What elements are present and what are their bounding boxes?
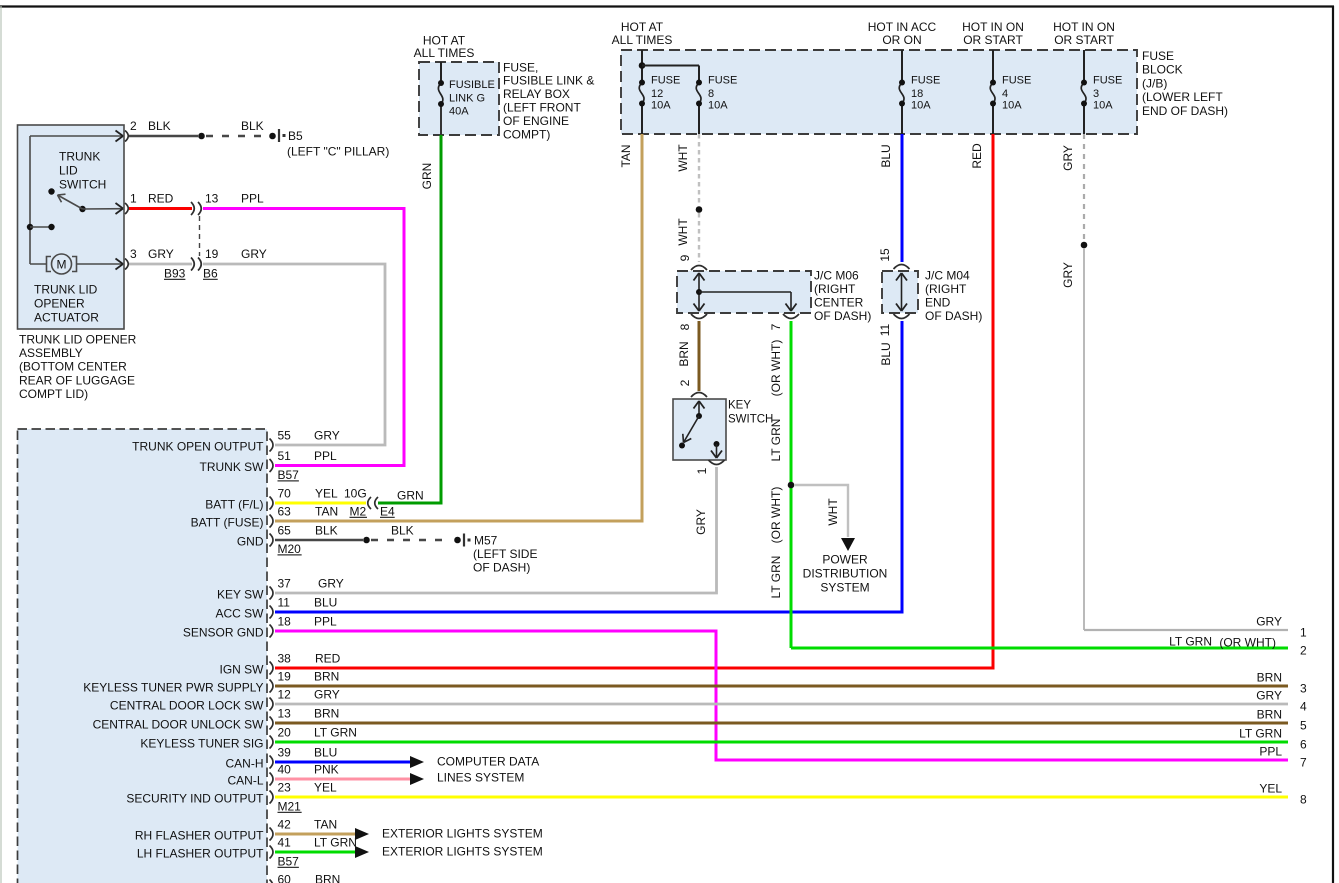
svg-text:GRY: GRY	[148, 247, 174, 261]
svg-text:BRN: BRN	[677, 341, 691, 366]
svg-text:7: 7	[769, 323, 783, 330]
svg-text:J/C M04: J/C M04	[925, 268, 970, 282]
svg-text:COMPT LID): COMPT LID)	[19, 387, 88, 401]
svg-text:3: 3	[1300, 681, 1307, 695]
svg-text:TRUNK LID: TRUNK LID	[34, 282, 98, 296]
svg-text:FUSE: FUSE	[1002, 74, 1031, 86]
svg-text:LT GRN: LT GRN	[314, 835, 357, 849]
svg-text:CAN-H: CAN-H	[226, 756, 264, 770]
svg-text:42: 42	[278, 817, 292, 831]
svg-text:(BOTTOM CENTER: (BOTTOM CENTER	[19, 360, 127, 374]
svg-text:70: 70	[278, 486, 292, 500]
svg-text:COMPT): COMPT)	[503, 127, 550, 141]
svg-text:WHT: WHT	[676, 218, 690, 246]
svg-text:BRN: BRN	[1257, 670, 1282, 684]
svg-text:LT GRN: LT GRN	[1169, 634, 1212, 648]
svg-text:M20: M20	[278, 542, 302, 556]
svg-text:OR START: OR START	[1054, 33, 1114, 47]
svg-text:LINK G: LINK G	[449, 92, 485, 104]
svg-text:FUSE: FUSE	[708, 74, 737, 86]
svg-text:PPL: PPL	[241, 191, 264, 205]
svg-text:5: 5	[1300, 718, 1307, 732]
svg-text:HOT IN ON: HOT IN ON	[962, 20, 1024, 34]
svg-text:4: 4	[1300, 699, 1307, 713]
svg-text:DISTRIBUTION: DISTRIBUTION	[803, 566, 888, 580]
svg-text:10A: 10A	[708, 99, 728, 111]
svg-text:GRY: GRY	[1256, 688, 1282, 702]
svg-text:ALL TIMES: ALL TIMES	[612, 33, 673, 47]
svg-text:ACC SW: ACC SW	[216, 606, 265, 620]
svg-text:(OR WHT): (OR WHT)	[769, 340, 783, 397]
svg-text:LH FLASHER OUTPUT: LH FLASHER OUTPUT	[137, 846, 264, 860]
svg-text:(RIGHT: (RIGHT	[814, 282, 856, 296]
svg-text:REAR OF LUGGAGE: REAR OF LUGGAGE	[19, 373, 135, 387]
svg-text:GRY: GRY	[1061, 262, 1075, 288]
svg-text:KEY SW: KEY SW	[217, 587, 264, 601]
svg-text:1: 1	[130, 191, 137, 205]
svg-text:10A: 10A	[1002, 99, 1022, 111]
svg-text:LINES SYSTEM: LINES SYSTEM	[437, 770, 524, 784]
svg-text:BRN: BRN	[315, 872, 340, 883]
svg-text:2: 2	[678, 379, 692, 386]
svg-text:BLK: BLK	[391, 523, 414, 537]
svg-text:SWITCH: SWITCH	[59, 177, 106, 191]
svg-text:12: 12	[278, 687, 292, 701]
svg-text:10A: 10A	[651, 99, 671, 111]
svg-text:4: 4	[1002, 88, 1008, 100]
svg-text:M21: M21	[278, 799, 302, 813]
svg-text:FUSE: FUSE	[1093, 74, 1122, 86]
svg-text:CENTRAL DOOR LOCK SW: CENTRAL DOOR LOCK SW	[110, 698, 264, 712]
svg-text:PPL: PPL	[314, 614, 337, 628]
svg-text:OPENER: OPENER	[34, 296, 85, 310]
svg-text:FUSE: FUSE	[1142, 49, 1174, 63]
svg-text:FUSE: FUSE	[651, 74, 680, 86]
svg-text:WHT: WHT	[826, 498, 840, 526]
svg-text:KEY: KEY	[728, 400, 751, 412]
svg-text:WHT: WHT	[676, 144, 690, 172]
svg-text:10A: 10A	[1093, 99, 1113, 111]
svg-text:GRY: GRY	[314, 687, 340, 701]
svg-text:B57: B57	[278, 468, 300, 482]
svg-text:OR ON: OR ON	[882, 33, 921, 47]
svg-text:EXTERIOR LIGHTS SYSTEM: EXTERIOR LIGHTS SYSTEM	[382, 826, 543, 840]
svg-text:3: 3	[130, 247, 137, 261]
svg-text:9: 9	[678, 254, 692, 261]
svg-text:38: 38	[278, 651, 292, 665]
svg-text:END OF DASH): END OF DASH)	[1142, 104, 1228, 118]
svg-text:13: 13	[278, 706, 292, 720]
svg-text:(LEFT SIDE: (LEFT SIDE	[473, 547, 537, 561]
svg-text:BATT (F/L): BATT (F/L)	[205, 497, 263, 511]
svg-text:3: 3	[1093, 88, 1099, 100]
svg-text:OR START: OR START	[963, 33, 1023, 47]
svg-text:TRUNK: TRUNK	[59, 149, 100, 163]
svg-text:LT GRN: LT GRN	[769, 556, 783, 599]
svg-text:RED: RED	[970, 143, 984, 169]
svg-text:FUSIBLE: FUSIBLE	[449, 79, 495, 91]
svg-text:(OR WHT): (OR WHT)	[1219, 635, 1276, 649]
svg-text:M57: M57	[474, 533, 498, 547]
svg-text:15: 15	[878, 248, 892, 262]
svg-text:OF DASH): OF DASH)	[473, 560, 530, 574]
svg-text:TRUNK SW: TRUNK SW	[200, 460, 265, 474]
svg-text:B5: B5	[288, 129, 303, 143]
svg-text:60: 60	[278, 872, 292, 883]
svg-text:BLU: BLU	[314, 595, 337, 609]
svg-text:HOT AT: HOT AT	[621, 20, 664, 34]
svg-text:7: 7	[1300, 755, 1307, 769]
svg-text:10A: 10A	[911, 99, 931, 111]
svg-text:YEL: YEL	[314, 780, 337, 794]
svg-text:ASSEMBLY: ASSEMBLY	[19, 346, 83, 360]
svg-text:BLK: BLK	[315, 523, 338, 537]
svg-text:40A: 40A	[449, 105, 469, 117]
svg-text:19: 19	[278, 669, 292, 683]
svg-text:SECURITY IND OUTPUT: SECURITY IND OUTPUT	[126, 791, 264, 805]
svg-text:LT GRN: LT GRN	[1239, 726, 1282, 740]
svg-text:1: 1	[695, 467, 709, 474]
svg-text:GRY: GRY	[314, 428, 340, 442]
svg-text:(RIGHT: (RIGHT	[925, 282, 967, 296]
svg-text:41: 41	[278, 835, 292, 849]
svg-text:M: M	[57, 257, 67, 271]
svg-text:39: 39	[278, 745, 292, 759]
svg-text:YEL: YEL	[1259, 781, 1282, 795]
svg-text:TAN: TAN	[314, 817, 337, 831]
svg-text:PNK: PNK	[314, 762, 339, 776]
svg-text:RH FLASHER OUTPUT: RH FLASHER OUTPUT	[135, 828, 264, 842]
svg-text:POWER: POWER	[822, 552, 868, 566]
svg-text:GND: GND	[237, 534, 264, 548]
svg-text:J/C M06: J/C M06	[814, 268, 859, 282]
svg-text:11: 11	[278, 595, 291, 609]
svg-text:LT GRN: LT GRN	[314, 725, 357, 739]
svg-text:B93: B93	[164, 266, 186, 280]
svg-text:M2: M2	[350, 504, 367, 518]
svg-text:KEYLESS TUNER PWR SUPPLY: KEYLESS TUNER PWR SUPPLY	[83, 680, 263, 694]
svg-text:B6: B6	[203, 266, 218, 280]
svg-text:63: 63	[278, 504, 292, 518]
svg-text:CENTRAL DOOR UNLOCK SW: CENTRAL DOOR UNLOCK SW	[93, 717, 265, 731]
svg-text:TAN: TAN	[315, 504, 338, 518]
svg-text:12: 12	[651, 88, 663, 100]
svg-text:40: 40	[278, 762, 292, 776]
svg-text:(LEFT "C" PILLAR): (LEFT "C" PILLAR)	[287, 144, 389, 158]
svg-text:PPL: PPL	[1259, 744, 1282, 758]
svg-text:CENTER: CENTER	[814, 296, 864, 310]
svg-text:55: 55	[278, 428, 292, 442]
svg-text:BLU: BLU	[314, 745, 337, 759]
svg-text:OF DASH): OF DASH)	[814, 309, 871, 323]
svg-text:ALL TIMES: ALL TIMES	[414, 46, 475, 60]
svg-text:TAN: TAN	[619, 144, 633, 167]
svg-text:BLOCK: BLOCK	[1142, 63, 1183, 77]
svg-text:FUSE,: FUSE,	[503, 60, 538, 74]
svg-text:KEYLESS TUNER SIG: KEYLESS TUNER SIG	[140, 736, 263, 750]
svg-text:OF ENGINE: OF ENGINE	[503, 114, 569, 128]
svg-text:OF DASH): OF DASH)	[925, 309, 982, 323]
svg-text:20: 20	[278, 725, 292, 739]
svg-text:ACTUATOR: ACTUATOR	[34, 310, 99, 324]
svg-text:13: 13	[205, 191, 219, 205]
svg-text:BLU: BLU	[879, 342, 893, 365]
svg-text:TRUNK OPEN OUTPUT: TRUNK OPEN OUTPUT	[132, 439, 264, 453]
svg-text:BRN: BRN	[1257, 707, 1282, 721]
svg-text:GRY: GRY	[318, 576, 344, 590]
svg-text:YEL: YEL	[315, 486, 338, 500]
svg-text:RED: RED	[148, 191, 174, 205]
svg-text:6: 6	[1300, 737, 1307, 751]
svg-text:GRN: GRN	[397, 488, 424, 502]
svg-text:COMPUTER DATA: COMPUTER DATA	[437, 754, 539, 768]
svg-text:1: 1	[1300, 625, 1307, 639]
svg-text:(OR WHT): (OR WHT)	[769, 487, 783, 544]
svg-text:2: 2	[1300, 643, 1307, 657]
svg-text:23: 23	[278, 780, 292, 794]
svg-text:11: 11	[878, 323, 892, 336]
svg-text:B57: B57	[278, 854, 300, 868]
svg-text:(J/B): (J/B)	[1142, 76, 1167, 90]
svg-text:CAN-L: CAN-L	[227, 773, 263, 787]
svg-text:8: 8	[678, 323, 692, 330]
svg-text:BLU: BLU	[879, 144, 893, 167]
svg-text:37: 37	[278, 576, 292, 590]
svg-text:(LEFT FRONT: (LEFT FRONT	[503, 101, 581, 115]
svg-text:IGN SW: IGN SW	[220, 662, 265, 676]
svg-text:2: 2	[130, 119, 137, 133]
svg-text:GRY: GRY	[1061, 145, 1075, 171]
svg-text:RED: RED	[315, 651, 341, 665]
svg-text:BLK: BLK	[241, 119, 264, 133]
svg-text:GRY: GRY	[1256, 614, 1282, 628]
svg-text:GRY: GRY	[694, 509, 708, 535]
svg-text:65: 65	[278, 523, 292, 537]
svg-text:SWITCH: SWITCH	[728, 414, 773, 426]
svg-text:18: 18	[911, 88, 923, 100]
svg-text:19: 19	[205, 247, 219, 261]
svg-text:TRUNK LID OPENER: TRUNK LID OPENER	[19, 332, 137, 346]
svg-text:BRN: BRN	[314, 706, 339, 720]
svg-text:8: 8	[1300, 792, 1307, 806]
svg-text:(LOWER LEFT: (LOWER LEFT	[1142, 90, 1223, 104]
svg-text:FUSE: FUSE	[911, 74, 940, 86]
svg-text:8: 8	[708, 88, 714, 100]
svg-text:HOT IN ON: HOT IN ON	[1053, 20, 1115, 34]
svg-text:FUSIBLE LINK &: FUSIBLE LINK &	[503, 74, 594, 88]
svg-text:PPL: PPL	[314, 449, 337, 463]
svg-text:GRN: GRN	[420, 163, 434, 190]
svg-text:BRN: BRN	[314, 669, 339, 683]
svg-text:51: 51	[278, 449, 292, 463]
svg-text:BATT (FUSE): BATT (FUSE)	[191, 515, 264, 529]
svg-text:HOT IN ACC: HOT IN ACC	[868, 20, 937, 34]
svg-text:SENSOR GND: SENSOR GND	[183, 625, 264, 639]
svg-text:END: END	[925, 296, 951, 310]
svg-text:BLK: BLK	[148, 119, 171, 133]
svg-text:EXTERIOR LIGHTS SYSTEM: EXTERIOR LIGHTS SYSTEM	[382, 844, 543, 858]
svg-text:10G: 10G	[344, 486, 367, 500]
svg-text:SYSTEM: SYSTEM	[820, 580, 869, 594]
svg-text:E4: E4	[380, 504, 395, 518]
svg-text:18: 18	[278, 614, 292, 628]
svg-text:GRY: GRY	[241, 247, 267, 261]
svg-text:LID: LID	[59, 163, 78, 177]
svg-text:RELAY BOX: RELAY BOX	[503, 87, 570, 101]
